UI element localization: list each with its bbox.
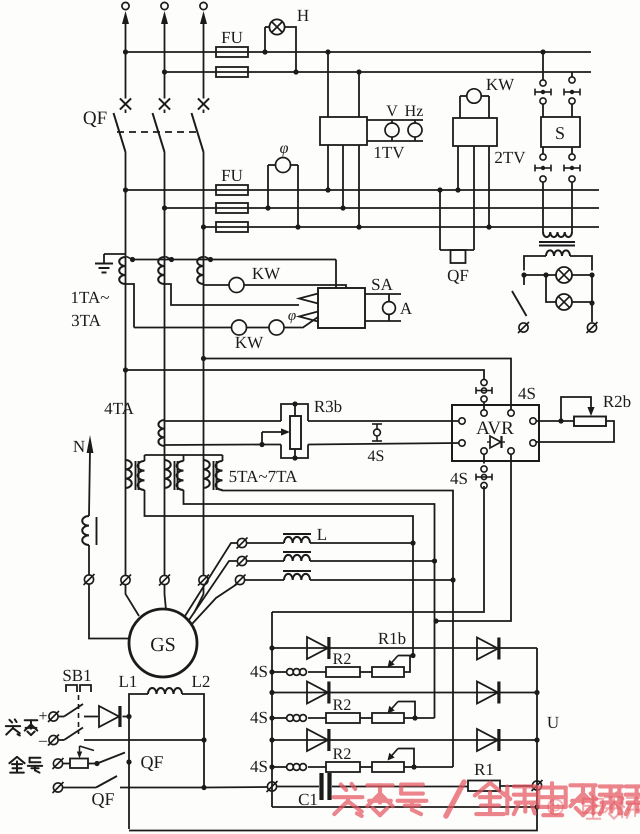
junction R3b bottom xyxy=(292,455,297,460)
wire KW loop left xyxy=(459,96,461,118)
wire GS-L2 diag xyxy=(189,561,238,620)
contact SB1 a xyxy=(64,704,83,717)
svg-text:R2b: R2b xyxy=(603,392,631,411)
wire vert L2 down xyxy=(434,561,436,718)
label C1 xyxy=(298,790,318,809)
svg-text:4S: 4S xyxy=(368,448,385,465)
resistor equalize xyxy=(70,759,88,769)
svg-text:4S: 4S xyxy=(518,384,536,403)
junction row1/line1 xyxy=(123,187,128,192)
svg-text:Hz: Hz xyxy=(405,103,424,120)
label phi 2 xyxy=(288,308,296,324)
label QF main breaker xyxy=(83,108,107,129)
label 4S top xyxy=(518,384,536,403)
wire R3b bottom stub xyxy=(294,449,296,458)
switch 4S bottom xyxy=(476,466,492,489)
wire phi top-l xyxy=(268,164,276,166)
terminal rail xyxy=(532,780,543,791)
wire R3b wiper elbow xyxy=(261,432,263,445)
contact S col A mid xyxy=(540,98,546,104)
junction R2b tap xyxy=(558,418,563,423)
junction QF2/L2lead xyxy=(201,785,206,790)
wire rowC pot out xyxy=(404,766,414,768)
wire S col A below xyxy=(542,147,544,154)
wire field left lead xyxy=(129,694,148,717)
svg-text:φ: φ xyxy=(288,308,296,324)
wire start+ stub xyxy=(58,716,64,718)
svg-text:KW: KW xyxy=(486,75,515,94)
switch 4S mid xyxy=(372,424,382,441)
svg-text:–: – xyxy=(38,732,48,749)
wire KW loop top-l xyxy=(460,95,467,97)
wire S col B to xfmr xyxy=(571,182,573,232)
terminal L2 wire xyxy=(237,556,248,567)
transformer 1TV box xyxy=(320,117,367,145)
junction row3/line3 xyxy=(201,224,206,229)
reactor L3 core xyxy=(283,570,311,572)
label R2b xyxy=(603,392,631,411)
label QF aux2 xyxy=(91,789,114,809)
wire S col B below xyxy=(571,147,573,154)
label A xyxy=(400,299,413,318)
junction rowB sub left xyxy=(269,715,274,720)
svg-text:U: U xyxy=(547,713,559,732)
wire 4TA bottom lead xyxy=(165,444,263,447)
wire AVR b2 down xyxy=(436,454,511,621)
AVR pin l1 xyxy=(459,418,465,424)
AVR pin l2 xyxy=(459,440,465,446)
wire rail bottom corner xyxy=(129,807,537,831)
wire QF2 stub xyxy=(63,787,97,789)
resistor R1 xyxy=(468,781,500,792)
junction rowC pot xyxy=(411,764,416,769)
junction equalize xyxy=(94,761,99,766)
fuse FU upper xyxy=(216,47,248,57)
wire S col B to box xyxy=(571,104,573,117)
wire phi right xyxy=(297,165,299,227)
terminal start minus xyxy=(48,735,59,746)
diode rowB left xyxy=(307,682,329,704)
junction lamp a xyxy=(521,272,526,277)
CT 2TA bumps xyxy=(158,257,164,284)
junction busbar1/line1 xyxy=(123,49,128,54)
plug S col B lower xyxy=(564,165,580,172)
label 2TV xyxy=(494,148,526,167)
wire 2TV sec a xyxy=(457,146,459,190)
wire lamp switch stub xyxy=(523,275,525,285)
svg-text:QF: QF xyxy=(83,108,107,129)
label U xyxy=(547,713,559,732)
reactor L1 core xyxy=(283,533,311,535)
wire 2TV sec c xyxy=(488,146,490,227)
junction R3b top xyxy=(292,401,297,406)
wire 5TA out3 xyxy=(223,490,454,580)
wire right rail xyxy=(536,648,538,807)
wire R3b-AVR lower xyxy=(308,443,459,445)
svg-text:2TV: 2TV xyxy=(494,148,526,167)
wire N upper xyxy=(89,450,90,516)
junction H lamp left xyxy=(262,49,267,54)
wire S col A upper xyxy=(542,52,544,80)
label V xyxy=(386,103,398,120)
CT 5TA primary xyxy=(126,460,132,488)
wire 1TV primary b xyxy=(358,72,360,117)
CT 7TA primary xyxy=(204,460,210,488)
switch 4S top xyxy=(476,379,492,402)
svg-text:QF: QF xyxy=(91,789,114,809)
R3b wiper arrow xyxy=(262,428,290,435)
contact S col A top xyxy=(540,80,546,86)
CT 7TA secondary xyxy=(216,461,223,490)
junction b2/L2vert xyxy=(433,618,438,623)
label S xyxy=(555,123,565,143)
wire KW loop right xyxy=(488,96,490,118)
junction CT3 tap xyxy=(208,257,213,262)
wire equalize-rect xyxy=(204,786,268,789)
wire meas-AVR xyxy=(126,370,485,380)
wire KW2 row b xyxy=(247,327,270,329)
label 4S mid xyxy=(368,448,385,465)
fuse FU row1 xyxy=(216,185,248,195)
wire H lamp right xyxy=(285,27,297,72)
label GS xyxy=(150,634,176,656)
wire 4TA top lead xyxy=(165,420,282,422)
junction wire358/line3 xyxy=(201,356,206,361)
label L2 xyxy=(192,672,211,691)
diode rowC left xyxy=(307,729,329,751)
switch SA box xyxy=(318,288,365,328)
svg-text:R2: R2 xyxy=(333,651,352,668)
wire R3b bottom bracket xyxy=(281,445,308,459)
wire L3vert elbow xyxy=(452,766,454,769)
rowA wiper xyxy=(388,656,410,668)
wire CT3 sec a xyxy=(204,284,230,286)
svg-text:5TA~7TA: 5TA~7TA xyxy=(229,467,299,486)
wire CT1 sec jog xyxy=(126,284,135,328)
CT 6TA secondary xyxy=(177,461,184,490)
contact S col A low2 xyxy=(540,176,546,182)
junction row2/line2 xyxy=(162,205,167,210)
meter KW top xyxy=(467,89,481,103)
label R2 rowB xyxy=(333,697,352,714)
junction CT2 tap xyxy=(169,257,174,262)
AVR pin r1 xyxy=(530,418,536,424)
junction R3b wiper tap xyxy=(259,442,264,447)
wire line3 main xyxy=(203,152,205,575)
label N xyxy=(73,437,85,456)
wire AVR-boxtop xyxy=(272,486,484,612)
wire rowA bus xyxy=(272,647,537,649)
wire C1 row b xyxy=(332,786,468,788)
svg-text:SB1: SB1 xyxy=(62,666,91,685)
wire GS p1 drop xyxy=(126,585,140,617)
junction start+/L1lead xyxy=(126,714,131,719)
contact S col A low1 xyxy=(540,154,546,160)
label 4S rowA xyxy=(250,662,268,681)
contact S col B low1 xyxy=(569,154,575,160)
wire CT common drop xyxy=(335,260,337,289)
rheostat rowB xyxy=(372,713,404,723)
transformer sync core xyxy=(539,242,575,246)
svg-text:S: S xyxy=(555,123,565,143)
AVR internal diode xyxy=(487,436,505,448)
label FU mid xyxy=(221,166,243,185)
diode rowA right xyxy=(477,638,499,660)
wire QF trip left xyxy=(439,190,441,250)
wire 2TV sec mid xyxy=(473,146,475,250)
contact QF aux 1 xyxy=(97,753,125,764)
wire 1TV sec b xyxy=(342,145,344,208)
junction busbar2/line2 xyxy=(162,69,167,74)
label QF trip xyxy=(447,266,469,285)
terminal circle line 1 xyxy=(122,2,129,9)
wire rowC sub a xyxy=(272,766,286,768)
contact S col B low2 xyxy=(569,176,575,182)
svg-text:L: L xyxy=(317,525,327,544)
wire line 1 below breaker stub xyxy=(125,110,127,114)
terminal L3 wire xyxy=(235,575,246,586)
svg-text:R1: R1 xyxy=(474,760,494,779)
wire CT3 sec b xyxy=(244,285,346,288)
wire rowA sub b xyxy=(308,671,326,673)
contact SB1 b xyxy=(64,728,83,741)
plug S col A lower xyxy=(535,165,551,172)
wire lamp2 right xyxy=(572,301,592,303)
wire GS-L1 diag xyxy=(185,543,238,616)
wire N lower xyxy=(89,585,130,639)
wire R3b-AVR upper xyxy=(308,420,459,422)
meter phi 2 xyxy=(269,320,284,335)
wire 4S-AVRpin xyxy=(483,402,485,410)
label KW 1 xyxy=(252,264,281,283)
watermark logo circle xyxy=(548,800,563,815)
label 4S bottom xyxy=(450,469,468,488)
generator GS circle xyxy=(129,609,197,677)
terminal GS p1 xyxy=(120,575,131,586)
label SB1 xyxy=(62,666,91,685)
svg-text:QF: QF xyxy=(447,266,469,285)
svg-text:R1b: R1b xyxy=(378,629,406,648)
label phi xyxy=(280,140,289,157)
label 4S rowC xyxy=(250,757,268,776)
label H xyxy=(297,6,309,25)
synchroscope S box xyxy=(541,117,580,147)
label plus xyxy=(38,708,47,725)
wire KW2 row a xyxy=(134,327,232,329)
plug S col A upper xyxy=(535,89,551,96)
CT 5TA core xyxy=(136,461,139,490)
wire line2 main xyxy=(164,152,166,575)
field winding coil xyxy=(148,688,182,694)
wire line 2 below breaker stub xyxy=(164,110,166,114)
label L1 xyxy=(119,672,138,691)
junction rail rowC xyxy=(534,737,539,742)
fuse FU row2 xyxy=(216,203,248,213)
bus row 1 xyxy=(126,189,600,191)
CT rowB bumps xyxy=(287,715,307,722)
wire rowA sub a xyxy=(272,671,286,673)
arrow up line 2 xyxy=(161,11,168,24)
svg-text:A: A xyxy=(400,299,413,318)
regulator AVR box xyxy=(452,405,539,461)
wire start+ b xyxy=(84,716,98,718)
svg-text:4S: 4S xyxy=(250,662,268,681)
junction L1/vert xyxy=(410,540,415,545)
wire rowB pot out xyxy=(404,717,415,719)
meter KW 2 xyxy=(232,320,247,335)
svg-text:1TV: 1TV xyxy=(373,143,405,162)
label R1 xyxy=(474,760,494,779)
wire SA-AVR xyxy=(204,359,512,411)
diode rowB right xyxy=(477,682,499,704)
CT 4TA bumps xyxy=(158,420,164,446)
wire CT common xyxy=(133,259,337,261)
wire GS-L3 diag xyxy=(192,584,237,624)
rheostat rowA xyxy=(372,667,404,677)
label 1TA~ xyxy=(71,288,110,307)
label 4TA xyxy=(104,399,135,418)
junction QFaux/L1lead xyxy=(126,759,131,764)
busbar 1 xyxy=(126,51,592,53)
wire line1 main xyxy=(125,152,127,575)
SB1 button caps xyxy=(66,685,91,692)
label R2 rowA xyxy=(333,651,352,668)
wire 1TV sec a xyxy=(327,145,329,190)
label QF aux1 xyxy=(140,752,163,772)
lamp H xyxy=(269,19,284,34)
terminal start plus xyxy=(48,711,59,722)
arrow up line 3 xyxy=(200,11,207,24)
terminal L1 wire xyxy=(237,538,248,549)
wire vert L1 down xyxy=(412,543,414,656)
wire rowC sub b xyxy=(308,766,326,768)
svg-text:C1: C1 xyxy=(298,790,318,809)
QF breaker blade pole 1 xyxy=(114,113,126,152)
wire line 2 upper xyxy=(164,22,166,99)
label 4S rowB xyxy=(250,708,268,727)
junction phi right xyxy=(295,224,300,229)
contact S col B mid xyxy=(569,98,575,104)
wire L3 row xyxy=(245,579,454,581)
junction rowA pot xyxy=(410,653,415,658)
label 1TV xyxy=(373,143,405,162)
wire start- stub xyxy=(58,739,64,741)
wire A bottom rail xyxy=(365,320,401,322)
label L xyxy=(317,525,327,544)
contact QF aux 2 xyxy=(96,776,117,788)
wire rowA sub c xyxy=(360,671,372,673)
label KW 2 xyxy=(235,333,264,352)
breaker fixed contact X line 2 xyxy=(159,98,170,109)
equalize wiper arrow xyxy=(77,746,94,759)
wire 5TA out1 xyxy=(145,490,414,543)
label FU top xyxy=(221,28,243,47)
wire 5TA common top xyxy=(145,455,223,461)
rheostat R3b xyxy=(290,416,301,449)
terminal rect left xyxy=(267,781,278,792)
svg-text:4S: 4S xyxy=(450,469,468,488)
watermark toutiao quanqiu xyxy=(334,782,640,816)
svg-text:KW: KW xyxy=(235,333,264,352)
SA wedge upper xyxy=(299,294,318,304)
AVR pin t1 xyxy=(481,410,487,416)
wire KW2 row c xyxy=(284,317,318,328)
meter A xyxy=(383,294,396,321)
capacitor C1 xyxy=(322,773,330,800)
AVR pin t2 xyxy=(508,410,514,416)
label R2 rowC xyxy=(333,746,352,763)
wire C1 row a xyxy=(277,786,320,788)
rowC wiper xyxy=(388,749,415,768)
N arrow xyxy=(87,435,94,453)
label Hz xyxy=(405,103,424,120)
svg-text:SA: SA xyxy=(371,275,393,294)
terminal circle line 2 xyxy=(161,2,168,9)
svg-text:L2: L2 xyxy=(192,672,211,691)
CT 1TA secondary tap xyxy=(127,257,133,260)
meter Hz xyxy=(408,120,422,141)
wire 1TV primary a xyxy=(327,52,329,117)
rheostat R2b xyxy=(574,417,606,427)
junction QF trip left xyxy=(437,187,442,192)
wire start- long xyxy=(84,739,204,741)
ground wire xyxy=(104,253,126,255)
watermark bianpinqi outlined xyxy=(583,796,640,819)
label 3TA xyxy=(71,311,102,330)
terminal lamp right xyxy=(587,322,598,333)
wire H lamp to lamp xyxy=(265,26,270,28)
label R1b xyxy=(378,629,406,648)
wire vert L3 down xyxy=(452,580,454,767)
contact S col B top xyxy=(569,77,575,83)
wire rowB sub b xyxy=(308,717,326,719)
svg-text:H: H xyxy=(297,6,309,25)
reactor L2 core xyxy=(283,551,311,553)
svg-text:4S: 4S xyxy=(250,757,268,776)
junction bottom/rail xyxy=(534,804,539,809)
rheostat rowC xyxy=(372,762,404,772)
wire equalize b xyxy=(88,763,97,765)
AVR pin b2 xyxy=(508,448,514,454)
reactor L2 coil xyxy=(284,555,310,561)
wire S col A to xfmr xyxy=(542,182,544,232)
reactor L1 coil xyxy=(284,537,310,543)
wire AVR r1 out xyxy=(536,420,574,422)
AVR pin r2 xyxy=(530,440,536,446)
wire L1 row xyxy=(247,542,414,544)
plug S col B upper xyxy=(564,89,580,96)
junction phi left xyxy=(265,205,270,210)
terminal equalize a xyxy=(53,758,64,769)
wire lamp1 right xyxy=(572,274,592,276)
svg-text:FU: FU xyxy=(221,28,243,47)
label SA xyxy=(371,275,393,294)
resistor R2 rowB xyxy=(326,713,360,723)
reactor N core xyxy=(96,517,98,545)
wire V-Hz top rail xyxy=(367,119,423,121)
svg-text:GS: GS xyxy=(150,634,176,656)
wire lamp2 branch left xyxy=(546,275,556,302)
reactor N coil xyxy=(82,516,89,545)
label 5TA~7TA xyxy=(229,467,299,486)
transformer sync primary xyxy=(543,232,572,237)
junction start-/L2lead xyxy=(201,737,206,742)
svg-text:AVR: AVR xyxy=(476,418,514,439)
rowB wiper xyxy=(388,702,416,719)
wire L2 row xyxy=(247,560,435,562)
blade lamp switch xyxy=(512,291,527,316)
wire rowC bus xyxy=(272,739,537,741)
